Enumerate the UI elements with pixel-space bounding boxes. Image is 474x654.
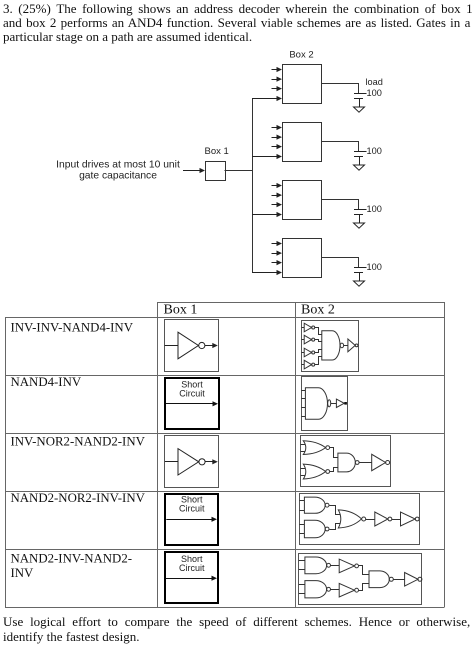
wire NAND4 to inverter row1	[344, 345, 348, 347]
output wire of box2 unit 1	[322, 84, 359, 94]
ground symbol 2	[354, 165, 365, 170]
input stub 4 NAND4 row2	[301, 416, 305, 418]
output wire of box2 unit 2	[322, 142, 359, 152]
inverter U1 (box1 scheme 1)	[178, 332, 198, 359]
svg-text:Box 1: Box 1	[205, 146, 229, 157]
input arrow 2 of box2 unit 4	[272, 251, 283, 256]
scheme cell box1 row4 frame (short circuit)	[165, 494, 218, 545]
NAND2 gate C row5	[369, 571, 389, 588]
problem statement line 3	[3, 30, 252, 44]
svg-text:load: load	[366, 77, 383, 87]
wire bus branch to box2 unit 2	[252, 154, 282, 159]
mini inverter 4 row1	[301, 360, 314, 369]
input stubs NAND2 A row4	[299, 501, 304, 511]
wire NAND2 C to inverter3 row5	[393, 579, 404, 581]
ground symbol 1	[354, 107, 365, 112]
NOR2 gate A row3	[303, 441, 329, 455]
wire NAND4 to inverter row2	[331, 403, 337, 405]
box 2 unit 3	[283, 181, 322, 220]
input stubs NOR2 A row3	[301, 445, 306, 452]
box 1	[206, 162, 226, 181]
short circuit arrow row5	[166, 576, 217, 581]
problem statement line 1	[3, 2, 473, 16]
NAND2 C bubble row5	[389, 577, 393, 581]
closing statement line 1	[3, 615, 470, 629]
wire bus branch to box2 unit 3	[252, 212, 282, 217]
svg-text:INV: INV	[11, 566, 35, 580]
wire NAND2 A to inverter1 row5	[331, 565, 340, 567]
NOR2 gate row4	[338, 510, 365, 528]
scheme cell box2 row3 frame	[301, 436, 391, 487]
svg-text:Circuit: Circuit	[179, 504, 205, 514]
input arrow into box 1	[183, 168, 205, 173]
svg-text:100: 100	[367, 146, 382, 156]
table column divider 1	[157, 302, 159, 607]
input stubs NAND2 B row5	[299, 585, 305, 594]
wire inverter 1 to NAND4 row1	[315, 328, 322, 335]
inverter U1 output bubble	[199, 342, 205, 348]
input stub 3 NAND4 row2	[301, 407, 305, 409]
input arrow 2 of box2 unit 3	[272, 193, 283, 198]
wire input row3 inverter	[165, 461, 178, 463]
scheme cell box1 row2 frame (short circuit)	[165, 378, 219, 429]
output arrow row3	[205, 459, 218, 464]
input arrow 3 of box2 unit 3	[272, 202, 283, 207]
capacitor C1	[354, 94, 367, 108]
table row separator 4	[5, 549, 445, 551]
short circuit arrow row4	[166, 517, 217, 522]
input stubs NOR2 B row3	[301, 469, 306, 476]
wire inverter2 to NAND2 C row5	[359, 584, 370, 591]
wire NOR2 to inverter1 row4	[366, 519, 375, 521]
wire inverter1 to inverter2 row4	[392, 519, 401, 521]
svg-text:NAND2-NOR2-INV-INV: NAND2-NOR2-INV-INV	[11, 491, 146, 505]
input arrow 2 of box2 unit 1	[272, 77, 283, 82]
input arrow 1 of box2 unit 4	[272, 241, 283, 246]
table row separator 2	[5, 433, 445, 435]
svg-text:INV-NOR2-NAND2-INV: INV-NOR2-NAND2-INV	[11, 434, 146, 448]
wire box1 output to bus	[225, 170, 253, 172]
input arrow 1 of box2 unit 3	[272, 183, 283, 188]
NOR2 gate B row3	[303, 464, 329, 479]
box 2 unit 4	[283, 239, 322, 278]
bus node vertical wire	[252, 99, 254, 273]
short circuit arrow row2	[166, 401, 218, 406]
output arrow row1	[205, 343, 218, 348]
table left border	[5, 317, 7, 607]
input arrow 3 of box2 unit 2	[272, 144, 283, 149]
output inverter 3 row5	[405, 573, 422, 587]
scheme cell box1 row5 frame (short circuit)	[165, 552, 218, 603]
svg-text:INV-INV-NAND4-INV: INV-INV-NAND4-INV	[11, 320, 134, 334]
output wire of box2 unit 4	[322, 258, 359, 268]
wire inverter 4 to NAND4 row1	[315, 357, 322, 365]
capacitor C4	[354, 268, 367, 282]
problem statement line 2	[3, 16, 470, 30]
input stub 1 NAND4 row2	[301, 390, 305, 392]
box 2 unit 2	[283, 123, 322, 162]
table header bottom border	[5, 317, 445, 319]
mini inverter 3 row1	[301, 348, 314, 357]
table row separator 1	[5, 375, 445, 377]
output wire of box2 unit 3	[322, 200, 359, 210]
svg-text:100: 100	[367, 88, 382, 98]
output inverter row3	[372, 454, 390, 470]
input stubs NAND2 B row4	[299, 525, 304, 534]
inverter 2 row5	[339, 583, 358, 597]
svg-text:gate capacitance: gate capacitance	[79, 171, 157, 182]
NAND4 gate row1	[322, 331, 340, 360]
ground symbol 3	[354, 223, 365, 228]
scheme cell box2 row2 frame	[302, 377, 348, 431]
svg-text:Box 2: Box 2	[289, 50, 313, 61]
closing statement line 2	[3, 630, 139, 644]
NAND2 gate A row5	[305, 557, 331, 574]
scheme cell box2 row4 frame	[300, 494, 420, 545]
wire bus branch to box2 unit 4	[252, 270, 282, 275]
scheme cell box2 row1 frame	[302, 321, 359, 372]
wire NAND2 to inverter row3	[359, 462, 372, 464]
NAND2 gate B row4	[304, 520, 329, 538]
NAND4 gate row2	[305, 388, 327, 420]
wire NAND2 B to NOR2 row4	[330, 524, 341, 530]
svg-text:NAND4-INV: NAND4-INV	[11, 375, 82, 389]
wire NAND2 A to NOR2 row4	[330, 506, 341, 515]
output inverter row1	[348, 339, 358, 352]
NAND4 bubble row2	[328, 400, 331, 407]
table table bottom border	[5, 607, 445, 609]
ground symbol 4	[354, 281, 365, 286]
input arrow 1 of box2 unit 2	[272, 125, 283, 130]
scheme cell box1 row1 frame	[165, 320, 219, 372]
inverter 1 row5	[339, 559, 358, 573]
input stub 2 NAND4 row2	[301, 398, 305, 400]
box 2 unit 1	[283, 65, 322, 104]
NAND2 gate row3	[338, 453, 355, 472]
table row separator 3	[5, 491, 445, 493]
wire NOR2 A to NAND2 row3	[330, 448, 338, 458]
mini inverter 2 row1	[301, 335, 314, 344]
NAND2 bubble row3	[355, 461, 359, 465]
NAND4 bubble row1	[340, 343, 343, 348]
svg-text:Circuit: Circuit	[179, 389, 205, 399]
inverter 1 row4	[375, 512, 392, 526]
svg-text:Box 2: Box 2	[301, 303, 335, 318]
svg-text:100: 100	[367, 262, 382, 272]
scheme cell box1 row3 frame	[165, 436, 219, 488]
mini inverter 1 row1	[301, 323, 314, 332]
inverter U2 output bubble	[199, 459, 205, 465]
NAND2 gate B row5	[305, 581, 331, 598]
wire bus branch to box2 unit 1	[252, 96, 282, 101]
input arrow 2 of box2 unit 2	[272, 135, 283, 140]
svg-text:NAND2-INV-NAND2-: NAND2-INV-NAND2-	[11, 552, 133, 566]
table column divider 2	[295, 302, 297, 607]
svg-text:Input drives at most 10 unit: Input drives at most 10 unit	[56, 160, 180, 171]
svg-text:100: 100	[367, 204, 382, 214]
svg-text:Circuit: Circuit	[179, 563, 205, 573]
input arrow 1 of box2 unit 1	[272, 67, 283, 72]
wire inverter1 to NAND2 C row5	[359, 566, 370, 575]
NAND2 gate A row4	[304, 497, 329, 513]
capacitor C3	[354, 210, 367, 224]
wire inverter 3 to NAND4 row1	[315, 350, 322, 353]
inverter U2 (box1 scheme 3)	[178, 449, 199, 475]
table header top border	[158, 302, 445, 304]
input arrow 3 of box2 unit 1	[272, 86, 283, 91]
inverter 2 row4	[401, 512, 420, 526]
scheme cell box2 row5 frame	[299, 554, 422, 605]
wire NOR2 B to NAND2 row3	[330, 468, 338, 472]
table right border	[444, 302, 446, 607]
input arrow 3 of box2 unit 4	[272, 260, 283, 265]
input stubs NAND2 A row5	[299, 561, 305, 570]
wire input row1 inverter	[165, 345, 178, 347]
capacitor C2	[354, 152, 367, 166]
wire NAND2 B to inverter2 row5	[331, 589, 340, 591]
output inverter row2	[336, 399, 347, 407]
wire inverter 2 to NAND4 row1	[315, 340, 322, 342]
svg-text:Box 1: Box 1	[164, 303, 198, 318]
